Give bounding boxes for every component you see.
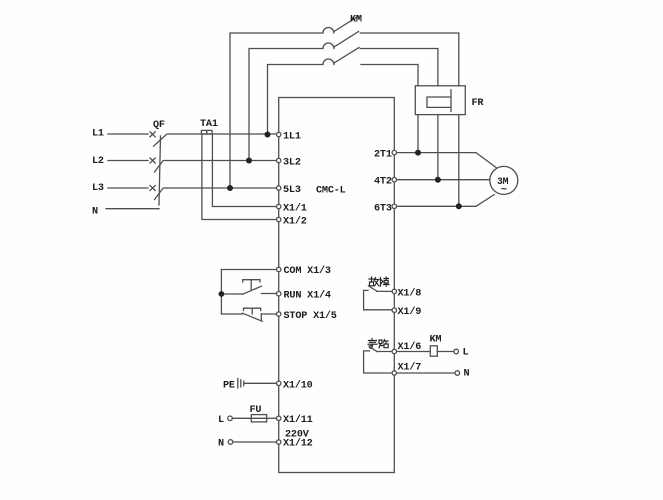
svg-text:2T1: 2T1 [374,150,392,161]
wire L3 input [108,187,148,189]
node 3L2 junction [246,158,252,164]
wire KM contact 3 to FR [361,65,418,86]
label 1L1 [283,131,301,142]
ground PE symbol [238,379,244,389]
wire COM to left rail [221,269,276,271]
terminal 5L3 [277,186,281,190]
pushbutton STOP blade [243,313,263,321]
wire L3 to terminal 5L3 [164,187,276,189]
label STOP X1/5 [284,310,337,322]
svg-text:TA1: TA1 [200,119,218,130]
label 3M [497,176,509,196]
wire 4T2 to motor [397,179,490,181]
terminal N input [228,440,233,445]
svg-text:N: N [92,207,98,218]
svg-text:STOP X1/5: STOP X1/5 [284,310,337,322]
label fault Chinese [369,277,389,286]
svg-text:L2: L2 [92,156,104,167]
pushbutton STOP actuator [244,308,261,314]
svg-text:PE: PE [223,380,235,391]
label KM [350,15,362,26]
svg-text:FU: FU [250,405,262,416]
label PE [223,380,235,391]
label KM coil [430,334,442,345]
label X1/9 [398,306,422,318]
label CMC-L [316,186,346,197]
terminal N output [455,371,460,376]
wire KM contact 2 to node 3L2 [249,49,323,161]
node RUN junction [219,291,225,297]
svg-text:COM X1/3: COM X1/3 [284,265,331,277]
terminal 2T1 [392,150,396,154]
wire TA1 secondary to X1/1 [212,135,276,207]
label N [92,207,98,218]
wire FR to node 6T3 [458,115,460,207]
motor M 3M [490,166,518,194]
svg-text:X1/11: X1/11 [283,414,313,426]
contactor KM contact 1 blade [334,16,359,32]
svg-text:L: L [218,415,224,426]
wire KM contact 2 to FR [360,49,438,86]
svg-text:KM: KM [350,15,362,26]
wire STOP branch [221,313,242,315]
soft starter U1 box CMC-L [279,98,395,473]
svg-text:X1/10: X1/10 [283,379,313,391]
contactor KM contact 1 hump [323,28,334,34]
label 220V [285,430,310,441]
contactor KM contact 2 hump [323,43,334,49]
node 4T2 junction [435,177,441,183]
wire KM contact 1 to FR [360,33,459,86]
svg-text:L: L [463,348,469,359]
wire PE to X1/10 [245,382,276,384]
svg-text:N: N [218,439,224,450]
svg-text:FR: FR [472,98,485,109]
svg-text:KM: KM [430,334,442,345]
label L output [463,348,469,359]
terminal COM X1/3 [277,267,281,271]
svg-text:1L1: 1L1 [283,131,301,142]
wire FR to node 2T1 [417,115,419,153]
terminal RUN X1/4 [277,292,281,296]
label FU [250,405,262,416]
terminal X1/11 [277,416,281,420]
wire fuse to X1/11 [267,417,277,419]
terminal L output [454,349,459,354]
wire FR to node 4T2 [437,115,439,180]
node 5L3 junction [227,185,233,191]
label L3 [92,183,104,194]
label TA1 [200,119,218,130]
label X1/12 [283,438,313,450]
wire KM contact 3 to node 1L1 [268,65,323,135]
thermal relay FR box [415,86,465,115]
wire L2 to terminal 3L2 [164,160,276,162]
label N input [218,439,224,450]
svg-text:4T2: 4T2 [374,177,392,188]
svg-text:X1/9: X1/9 [398,306,422,318]
label N output [464,368,470,379]
label X1/7 [398,362,422,374]
breaker QF pole 3 cross [150,186,155,191]
svg-text:X1/8: X1/8 [398,287,422,299]
coil KM [430,346,437,356]
terminal X1/12 [277,440,281,444]
wire RUN to terminal [262,293,277,295]
label L input [218,415,224,426]
svg-text:5L3: 5L3 [283,185,301,196]
svg-text:X1/7: X1/7 [398,362,422,374]
terminal L input [228,416,233,421]
wire X1/7 to N [397,372,455,374]
label 4T2 [374,177,392,188]
wire L1 to terminal 1L1 [167,133,276,135]
svg-text:X1/2: X1/2 [283,215,307,227]
wire RUN branch [221,293,242,295]
node 2T1 junction [415,150,421,156]
label 5L3 [283,185,301,196]
breaker QF linkage [159,136,161,205]
label L1 [92,129,104,140]
svg-text:3L2: 3L2 [283,157,301,168]
svg-text:6T3: 6T3 [374,203,392,214]
svg-text:RUN X1/4: RUN X1/4 [284,290,331,302]
label 2T1 [374,150,392,161]
breaker QF pole 2 cross [150,158,155,163]
label X1/8 [398,287,422,299]
pushbutton RUN actuator [243,280,260,290]
terminal X1/10 [277,381,281,385]
wire left rail vertical [220,270,222,315]
label COM X1/3 [284,265,331,277]
terminal X1/7 [392,371,396,375]
label 6T3 [374,203,392,214]
svg-text:~: ~ [501,184,507,196]
label RUN X1/4 [284,290,331,302]
terminal 6T3 [392,204,396,208]
svg-text:L3: L3 [92,183,104,194]
terminal X1/8 [392,289,396,293]
wire TA1 secondary to X1/2 [202,135,276,220]
svg-text:L1: L1 [92,129,104,140]
fault relay contact wires [364,290,392,309]
contactor KM contact 3 blade [334,48,359,64]
wire STOP to terminal [261,313,276,315]
label X1/1 [283,202,307,214]
wire L2 input [108,160,148,162]
svg-text:X1/12: X1/12 [283,438,313,450]
fault relay contact blade [368,286,376,291]
breaker QF pole 1 blade [154,135,167,146]
terminal 3L2 [277,158,281,162]
wire 6T3 to motor [397,195,494,207]
label X1/11 [283,414,313,426]
pushbutton RUN blade [242,286,261,294]
terminal X1/9 [392,308,396,312]
wire KM coil to L [437,351,453,353]
thermal relay FR heater element [427,90,451,112]
wire 2T1 to motor [397,153,496,168]
terminal X1/1 [277,204,281,208]
node 6T3 junction [456,203,462,209]
bypass relay contact wires [364,351,392,373]
label X1/6 [398,341,422,353]
svg-text:N: N [464,368,470,379]
breaker QF pole 1 cross [150,132,155,137]
wire L1 input [108,133,148,135]
contactor KM contact 2 blade [334,32,359,48]
wire N stub [106,208,159,210]
breaker QF pole 3 blade [155,188,164,199]
contactor KM contact 3 hump [323,59,334,65]
label X1/10 [283,379,313,391]
terminal X1/6 [392,349,396,353]
label QF [153,120,165,131]
svg-text:CMC-L: CMC-L [316,186,346,197]
wire KM contact 1 to node 5L3 [230,33,323,188]
svg-text:X1/1: X1/1 [283,202,307,214]
wire N to X1/12 [234,441,277,443]
label L2 [92,156,104,167]
terminal 4T2 [392,178,396,182]
bypass relay contact blade [370,347,378,352]
svg-text:QF: QF [153,120,165,131]
terminal X1/2 [277,217,281,221]
pushbutton STOP seat [260,314,262,321]
breaker QF pole 2 blade [155,161,164,172]
terminal 1L1 [277,132,281,136]
label 3L2 [283,157,301,168]
node 1L1 junction [265,132,271,138]
wire L to fuse [233,417,251,419]
label X1/2 [283,215,307,227]
current transformer TA1 [201,130,212,134]
label bypass Chinese [368,339,388,349]
wire X1/6 to KM coil [397,351,431,353]
fuse FU [251,415,266,422]
label FR [472,98,485,109]
terminal STOP X1/5 [277,312,281,316]
